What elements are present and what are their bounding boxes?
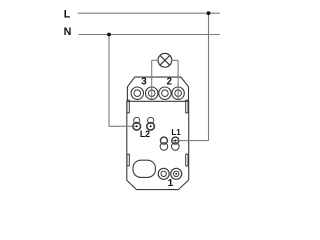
svg-text:N: N <box>64 26 72 38</box>
svg-text:L2: L2 <box>140 129 150 139</box>
svg-text:1: 1 <box>168 178 174 189</box>
svg-text:2: 2 <box>167 77 173 88</box>
svg-text:L1: L1 <box>171 128 181 137</box>
svg-text:L: L <box>64 8 71 20</box>
svg-text:3: 3 <box>141 77 147 88</box>
